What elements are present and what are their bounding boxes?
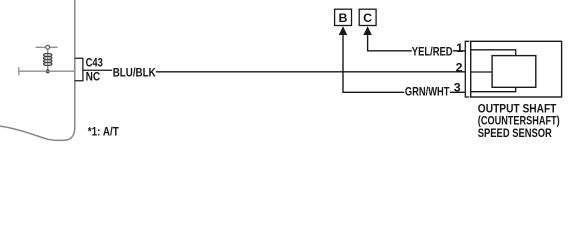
svg-text:*1: A/T: *1: A/T xyxy=(88,125,119,139)
svg-text:3: 3 xyxy=(454,81,461,95)
svg-text:SPEED SENSOR: SPEED SENSOR xyxy=(478,126,552,140)
svg-text:B: B xyxy=(339,11,348,25)
svg-text:2: 2 xyxy=(456,60,463,74)
svg-text:BLU/BLK: BLU/BLK xyxy=(113,66,156,80)
svg-text:C: C xyxy=(363,11,372,25)
svg-text:GRN/WHT: GRN/WHT xyxy=(405,85,450,99)
svg-text:C43: C43 xyxy=(86,56,103,70)
svg-text:NC: NC xyxy=(86,70,101,84)
svg-text:1: 1 xyxy=(456,41,463,55)
svg-text:YEL/RED: YEL/RED xyxy=(412,45,453,59)
